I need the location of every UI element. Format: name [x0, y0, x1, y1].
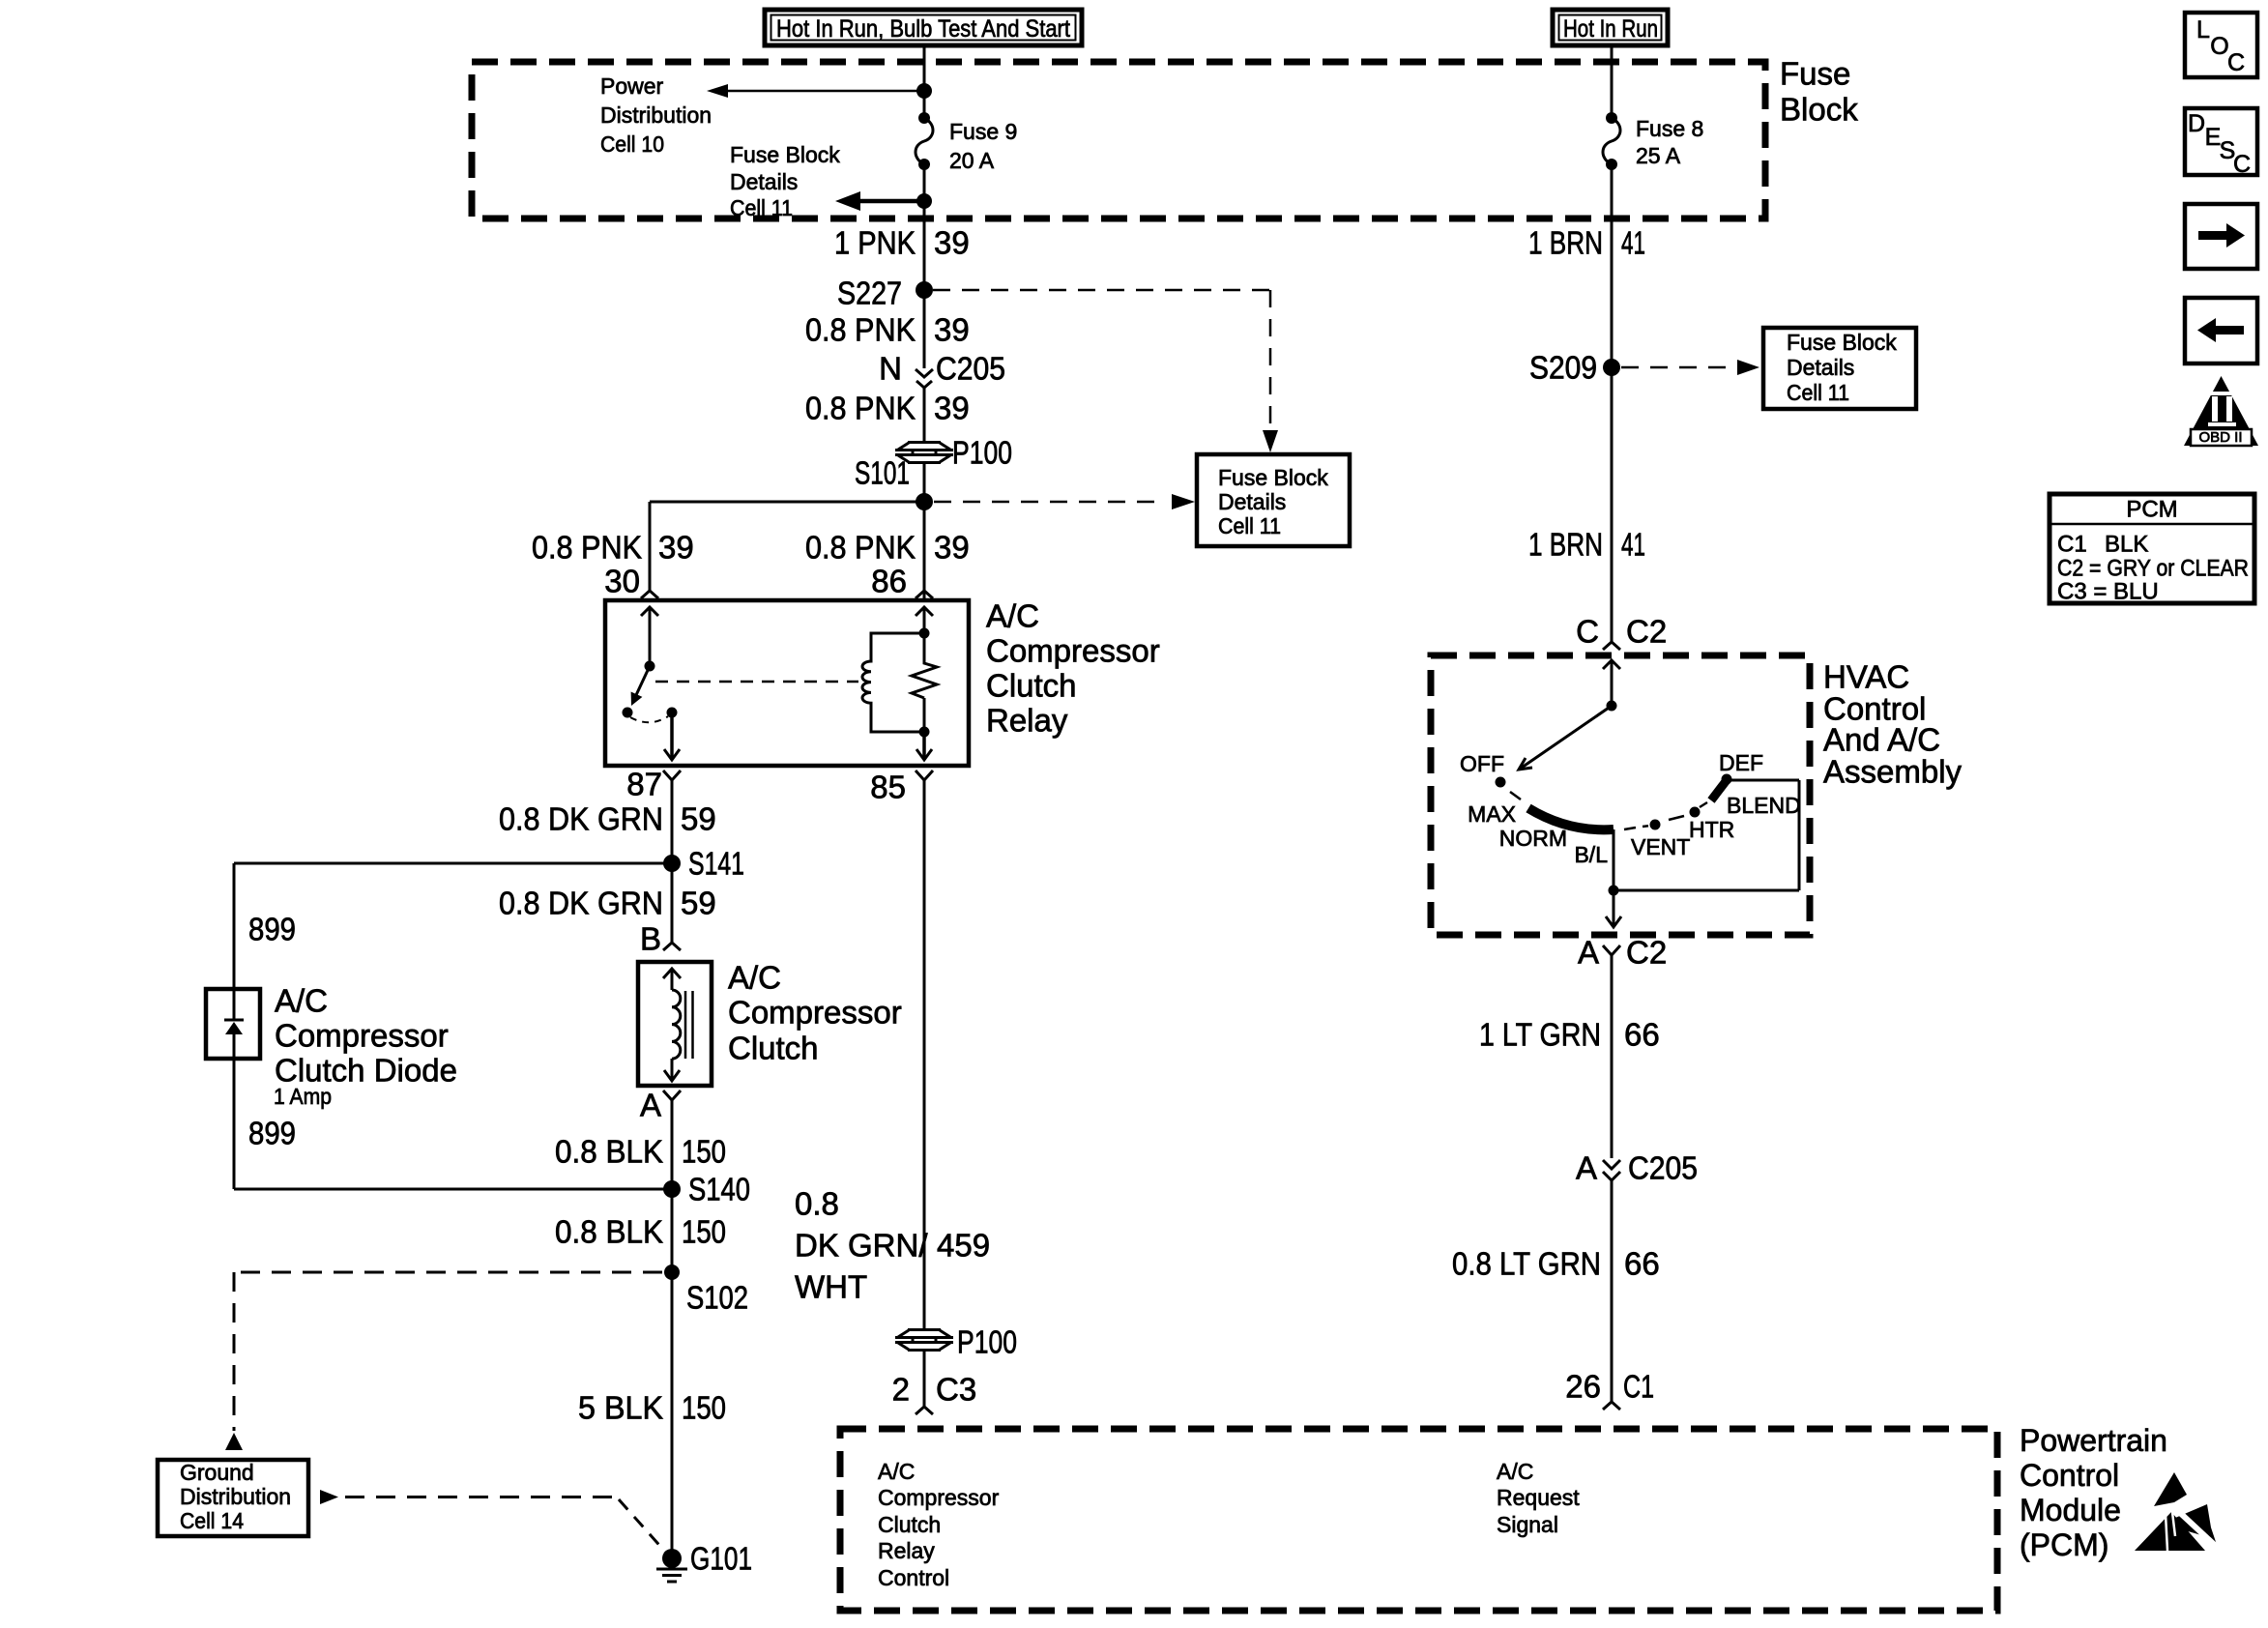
wire: feed into fuse 9 [923, 45, 926, 118]
icon: left arrow box [2185, 298, 2257, 363]
switch output B/L wire [1606, 829, 1621, 927]
Powertrain Control Module (dashed box) [840, 1429, 1997, 1611]
svg-text:Compressor: Compressor [986, 633, 1160, 669]
icon: LOC box [2185, 13, 2257, 77]
svg-text:NORM: NORM [1499, 826, 1567, 851]
svg-text:WHT: WHT [795, 1269, 867, 1305]
relay coil suppression resistor [912, 633, 937, 760]
A/C Compressor Clutch Diode box [206, 989, 260, 1059]
svg-text:B: B [640, 921, 661, 957]
svg-text:C1: C1 [1623, 1369, 1654, 1405]
dashed reference from S227 to Fuse Block Details box [933, 290, 1278, 452]
label: HVAC Control And A/C Assembly [1823, 659, 1963, 790]
label 1 PNK 39 [834, 225, 970, 261]
dashed reference from S209 to Fuse Block Details box [1621, 360, 1759, 375]
wire: 0.8 LT GRN 66 [1611, 1180, 1614, 1402]
svg-text:1 LT GRN: 1 LT GRN [1479, 1017, 1601, 1053]
svg-text:S101: S101 [855, 455, 910, 491]
svg-text:A: A [1578, 935, 1599, 971]
svg-text:86: 86 [871, 564, 907, 599]
A/C Compressor Clutch box [638, 962, 712, 1086]
svg-text:59: 59 [681, 801, 716, 837]
svg-text:Signal: Signal [1497, 1512, 1558, 1537]
svg-text:And A/C: And A/C [1823, 722, 1940, 758]
svg-text:Request: Request [1497, 1485, 1580, 1510]
svg-text:Hot In Run, Bulb Test And Star: Hot In Run, Bulb Test And Start [776, 15, 1070, 43]
splice S227 [837, 276, 933, 311]
wire: diode loop bottom [234, 1188, 672, 1191]
svg-text:59: 59 [681, 886, 716, 921]
relay internal dashed link [655, 681, 858, 683]
svg-text:1 BRN: 1 BRN [1528, 527, 1603, 563]
svg-text:66: 66 [1624, 1017, 1660, 1053]
svg-text:Clutch: Clutch [986, 668, 1077, 704]
svg-text:0.8 BLK: 0.8 BLK [555, 1134, 663, 1170]
svg-text:A: A [640, 1088, 661, 1123]
svg-text:150: 150 [682, 1214, 726, 1250]
diode symbol [224, 991, 244, 1057]
fuse block (dashed box) [472, 62, 1765, 218]
label 1 LT GRN 66 [1479, 1017, 1660, 1053]
dashed reference from S102 to ground distribution [225, 1272, 662, 1450]
svg-text:C2: C2 [1626, 614, 1667, 650]
wire: diode branch 899 [233, 863, 236, 1189]
svg-text:B/L: B/L [1574, 842, 1608, 867]
splice S140 [663, 1172, 750, 1207]
svg-text:Fuse 9: Fuse 9 [949, 119, 1017, 144]
connector C205 pin A (in-line) [1576, 1150, 1698, 1186]
svg-text:Cell 14: Cell 14 [180, 1508, 244, 1533]
svg-text:L: L [2196, 16, 2210, 44]
splice S141 [663, 846, 744, 882]
svg-text:Clutch Diode: Clutch Diode [275, 1053, 457, 1089]
HVAC Control And A/C Assembly (dashed box) [1431, 655, 1810, 935]
svg-text:30: 30 [604, 564, 640, 599]
switch position VENT [1631, 820, 1690, 860]
label 1 BRN 41 (2) [1528, 527, 1645, 563]
svg-text:39: 39 [934, 391, 970, 426]
svg-text:Module: Module [2020, 1493, 2121, 1527]
switch position OFF [1460, 751, 1506, 788]
relay pin 86 [871, 564, 933, 599]
svg-text:0.8 PNK: 0.8 PNK [805, 391, 916, 426]
power feed label box: Hot In Run [1553, 10, 1668, 45]
label: Power Distribution Cell 10 [600, 73, 712, 157]
connector C205 pin N (in-line) [879, 351, 1005, 389]
label 0.8 BLK 150 [555, 1134, 726, 1170]
wire: branch to relay pin 30 [650, 502, 924, 591]
svg-text:C205: C205 [936, 351, 1005, 387]
label 0.8 LT GRN 66 [1452, 1246, 1660, 1282]
svg-text:PCM: PCM [2126, 497, 2177, 523]
svg-text:Distribution: Distribution [180, 1484, 291, 1509]
wire through P100 down to S101 [923, 462, 926, 600]
svg-text:Control: Control [878, 1565, 949, 1590]
Fuse Block Details Cell 11 box (middle) [1197, 454, 1350, 546]
thick contact arc MAX-NORM-B/L [1528, 808, 1614, 829]
splice S101 [916, 493, 933, 510]
svg-text:39: 39 [658, 530, 694, 566]
svg-text:0.8 PNK: 0.8 PNK [805, 312, 916, 348]
relay switch (pin30 to pin87) [623, 607, 681, 760]
wire: 1 BRN 41 [1611, 164, 1614, 642]
label 0.8 BLK 150 (2) [555, 1214, 726, 1250]
switch position DEF [1719, 750, 1763, 785]
svg-text:39: 39 [934, 530, 970, 566]
Fuse Block Details Cell 11 box (right) [1763, 328, 1916, 409]
svg-text:OFF: OFF [1460, 751, 1504, 776]
label: Fuse Block [1780, 56, 1858, 128]
svg-text:DK GRN/: DK GRN/ [795, 1228, 928, 1264]
svg-text:P100: P100 [952, 435, 1012, 471]
switch position labels MAX NORM B/L [1468, 801, 1608, 867]
svg-text:S227: S227 [837, 276, 902, 311]
svg-text:39: 39 [934, 225, 970, 261]
svg-text:G101: G101 [690, 1541, 752, 1577]
svg-text:Fuse 8: Fuse 8 [1636, 116, 1703, 141]
PCM connector color table [2050, 494, 2254, 605]
svg-text:D: D [2188, 110, 2205, 137]
node: fuse block details tap [916, 193, 932, 209]
wire: 0.8 DK GRN 59 [671, 780, 674, 943]
svg-text:39: 39 [934, 312, 970, 348]
dashed contact HTR-BLEND [1700, 802, 1707, 807]
label: Powertrain Control Module (PCM) [2020, 1423, 2167, 1562]
svg-text:HTR: HTR [1689, 817, 1734, 842]
wire: 0.8 PNK 39 (below C205) [923, 388, 926, 443]
svg-text:C1: C1 [2057, 532, 2087, 558]
svg-text:Fuse: Fuse [1780, 56, 1850, 92]
svg-text:Cell 11: Cell 11 [1787, 380, 1849, 405]
relay coil [862, 607, 933, 732]
svg-text:0.8 PNK: 0.8 PNK [532, 530, 642, 566]
Ground Distribution Cell 14 box [158, 1460, 308, 1536]
relay: A/C Compressor Clutch Relay box [605, 600, 969, 766]
relay pin 30 [604, 564, 658, 599]
label 5 BLK 150 [578, 1390, 726, 1426]
HVAC mode switch wiper [1519, 660, 1620, 770]
svg-text:Cell 11: Cell 11 [1218, 513, 1281, 538]
clutch pin A [640, 1088, 681, 1123]
svg-text:A/C: A/C [275, 983, 328, 1019]
svg-text:0.8 PNK: 0.8 PNK [805, 530, 916, 566]
svg-text:0.8: 0.8 [795, 1186, 839, 1222]
svg-text:A/C: A/C [986, 598, 1039, 634]
dashed contact VENT-HTR [1669, 816, 1684, 820]
connector C3 pin 2 [892, 1372, 977, 1415]
switch position HTR [1689, 807, 1734, 843]
svg-text:DEF: DEF [1719, 750, 1763, 775]
svg-text:1 BRN: 1 BRN [1528, 225, 1603, 261]
ground G101 [656, 1541, 752, 1583]
connector C2 pin C [1576, 614, 1667, 651]
node: power distribution tap [916, 83, 932, 99]
svg-text:26: 26 [1565, 1369, 1601, 1405]
wire: 5 BLK 150 [671, 1272, 674, 1558]
svg-text:P100: P100 [957, 1324, 1017, 1360]
svg-text:BLK: BLK [2105, 532, 2148, 558]
svg-text:Details: Details [730, 169, 798, 194]
label 0.8 PNK 39 (2) [805, 391, 970, 426]
svg-text:A/C: A/C [878, 1459, 915, 1484]
dashed contact B/L-VENT [1624, 826, 1648, 829]
svg-text:Block: Block [1780, 92, 1858, 128]
label: Fuse 9 20 A [949, 119, 1017, 173]
clutch coil symbol [663, 969, 693, 1081]
icon: OBD II triangle [2184, 376, 2258, 446]
grommet P100 (top) [895, 443, 953, 463]
svg-text:Relay: Relay [878, 1538, 935, 1563]
svg-text:150: 150 [682, 1390, 726, 1426]
icon: DESC box [2185, 108, 2257, 178]
svg-text:Compressor: Compressor [275, 1018, 449, 1054]
svg-text:41: 41 [1621, 527, 1645, 563]
dashed reference from S101 to Fuse Block Details box [934, 494, 1195, 509]
label: A/C Compressor Clutch Diode 1 Amp [274, 983, 457, 1110]
arrow to Power Distribution [707, 84, 924, 98]
svg-text:OBD II: OBD II [2198, 429, 2242, 446]
svg-text:Compressor: Compressor [878, 1485, 1000, 1510]
svg-text:5 BLK: 5 BLK [578, 1390, 663, 1426]
power feed label box: Hot In Run, Bulb Test And Start [765, 10, 1082, 45]
svg-text:Details: Details [1787, 355, 1854, 380]
svg-text:1 Amp: 1 Amp [274, 1084, 332, 1109]
svg-text:S209: S209 [1529, 350, 1597, 386]
thick contact band BLEND-DEF [1711, 780, 1727, 800]
ESD sensitivity symbol [2135, 1472, 2219, 1551]
wire to PCM pin 2 [923, 1350, 926, 1407]
label 0.8 PNK 39 (branch) [532, 530, 694, 566]
svg-text:Power: Power [600, 73, 664, 99]
svg-text:41: 41 [1621, 225, 1645, 261]
svg-text:Powertrain: Powertrain [2020, 1423, 2167, 1458]
wire: 1 LT GRN 66 [1611, 955, 1614, 1158]
wire: feed into fuse 8 [1611, 45, 1614, 118]
label: A/C Compressor Clutch Relay [986, 598, 1160, 739]
label: A/C Compressor Clutch Relay Control [878, 1459, 1000, 1590]
relay pin 85 [870, 770, 933, 805]
svg-text:Fuse Block: Fuse Block [730, 142, 840, 167]
svg-text:2: 2 [892, 1372, 910, 1408]
svg-text:25 A: 25 A [1636, 143, 1681, 168]
splice S209 [1529, 350, 1620, 386]
svg-text:87: 87 [626, 767, 662, 802]
svg-text:A/C: A/C [728, 960, 781, 996]
switch output loop [1614, 780, 1799, 890]
svg-text:O: O [2210, 33, 2228, 60]
svg-text:150: 150 [682, 1134, 726, 1170]
label: A/C Compressor Clutch [728, 960, 902, 1066]
svg-text:C3: C3 [936, 1372, 976, 1408]
svg-text:Details: Details [1218, 489, 1286, 514]
wire: 0.8 PNK 39 (above C205) [923, 290, 926, 368]
label 1 BRN 41 [1528, 225, 1645, 261]
svg-text:Ground: Ground [180, 1460, 254, 1485]
svg-text:Relay: Relay [986, 703, 1068, 739]
svg-text:Cell 10: Cell 10 [600, 131, 664, 157]
label 0.8 PNK 39 [805, 312, 970, 348]
label: Fuse Block Details Cell 11 (top) [730, 142, 840, 220]
label 0.8 DK GRN/WHT 459 [795, 1186, 990, 1305]
svg-text:Control: Control [2020, 1458, 2119, 1493]
svg-text:S102: S102 [686, 1280, 748, 1316]
svg-text:66: 66 [1624, 1246, 1660, 1282]
svg-text:0.8 LT GRN: 0.8 LT GRN [1452, 1246, 1601, 1282]
svg-text:C: C [2233, 151, 2251, 178]
svg-text:459: 459 [937, 1228, 990, 1264]
wire: 0.8 DK GRN/WHT 459 [923, 780, 926, 1330]
arrow to Fuse Block Details [835, 191, 924, 211]
svg-text:0.8 DK GRN: 0.8 DK GRN [499, 886, 663, 921]
svg-text:1 PNK: 1 PNK [834, 225, 916, 261]
svg-text:Fuse Block: Fuse Block [1218, 465, 1328, 490]
svg-text:C205: C205 [1628, 1150, 1698, 1186]
dashed contact OFF-MAX [1510, 792, 1521, 799]
svg-text:20 A: 20 A [949, 148, 995, 173]
svg-text:Compressor: Compressor [728, 995, 902, 1031]
svg-text:MAX: MAX [1468, 801, 1516, 827]
svg-text:(PCM): (PCM) [2020, 1527, 2108, 1562]
label 0.8 PNK 39 (main) [805, 530, 970, 566]
wire: 1 PNK 39 [923, 164, 926, 290]
svg-text:Hot In Run: Hot In Run [1563, 15, 1658, 43]
svg-text:0.8 BLK: 0.8 BLK [555, 1214, 663, 1250]
svg-text:HVAC: HVAC [1823, 659, 1909, 695]
svg-text:Assembly: Assembly [1823, 754, 1963, 790]
svg-text:C: C [2227, 49, 2245, 76]
svg-text:0.8 DK GRN: 0.8 DK GRN [499, 801, 663, 837]
svg-text:Distribution: Distribution [600, 102, 712, 128]
svg-text:C: C [1576, 614, 1599, 650]
wire: 0.8 BLK 150 (2) [671, 1189, 674, 1272]
dashed reference from Ground Distribution to G101 [320, 1490, 665, 1552]
svg-text:VENT: VENT [1631, 834, 1690, 859]
splice S102 [664, 1265, 748, 1316]
svg-text:A/C: A/C [1497, 1459, 1533, 1484]
svg-text:S140: S140 [688, 1172, 750, 1207]
icon: right arrow box [2185, 204, 2257, 269]
wire: 0.8 BLK 150 [671, 1100, 674, 1189]
relay pin 87 [626, 767, 681, 802]
svg-text:S141: S141 [688, 846, 744, 882]
svg-text:C2: C2 [1626, 935, 1667, 971]
wire: diode loop top [234, 862, 672, 865]
svg-text:85: 85 [870, 770, 906, 805]
svg-text:899: 899 [248, 1116, 296, 1151]
connector C2 pin A [1578, 935, 1667, 971]
clutch pin B [640, 921, 681, 957]
label 0.8 DK GRN 59 [499, 801, 716, 837]
fuse Fuse 8 25 A [1603, 112, 1620, 170]
connector C1 pin 26 [1565, 1369, 1654, 1410]
svg-text:C2 = GRY or CLEAR: C2 = GRY or CLEAR [2057, 556, 2249, 582]
svg-text:A: A [1576, 1150, 1597, 1186]
svg-text:C3 = BLU: C3 = BLU [2057, 579, 2159, 605]
svg-text:Clutch: Clutch [728, 1031, 819, 1066]
svg-text:N: N [879, 351, 902, 387]
svg-text:Fuse Block: Fuse Block [1787, 330, 1897, 355]
grommet P100 (bottom) [895, 1330, 953, 1351]
label 0.8 DK GRN 59 (2) [499, 886, 716, 921]
label: A/C Request Signal [1497, 1459, 1580, 1537]
fuse Fuse 9 20 A [916, 112, 933, 170]
svg-text:Clutch: Clutch [878, 1512, 941, 1537]
svg-text:899: 899 [248, 912, 296, 947]
svg-text:Cell 11: Cell 11 [730, 195, 793, 220]
svg-text:BLEND: BLEND [1727, 793, 1801, 818]
label: Fuse 8 25 A [1636, 116, 1703, 168]
